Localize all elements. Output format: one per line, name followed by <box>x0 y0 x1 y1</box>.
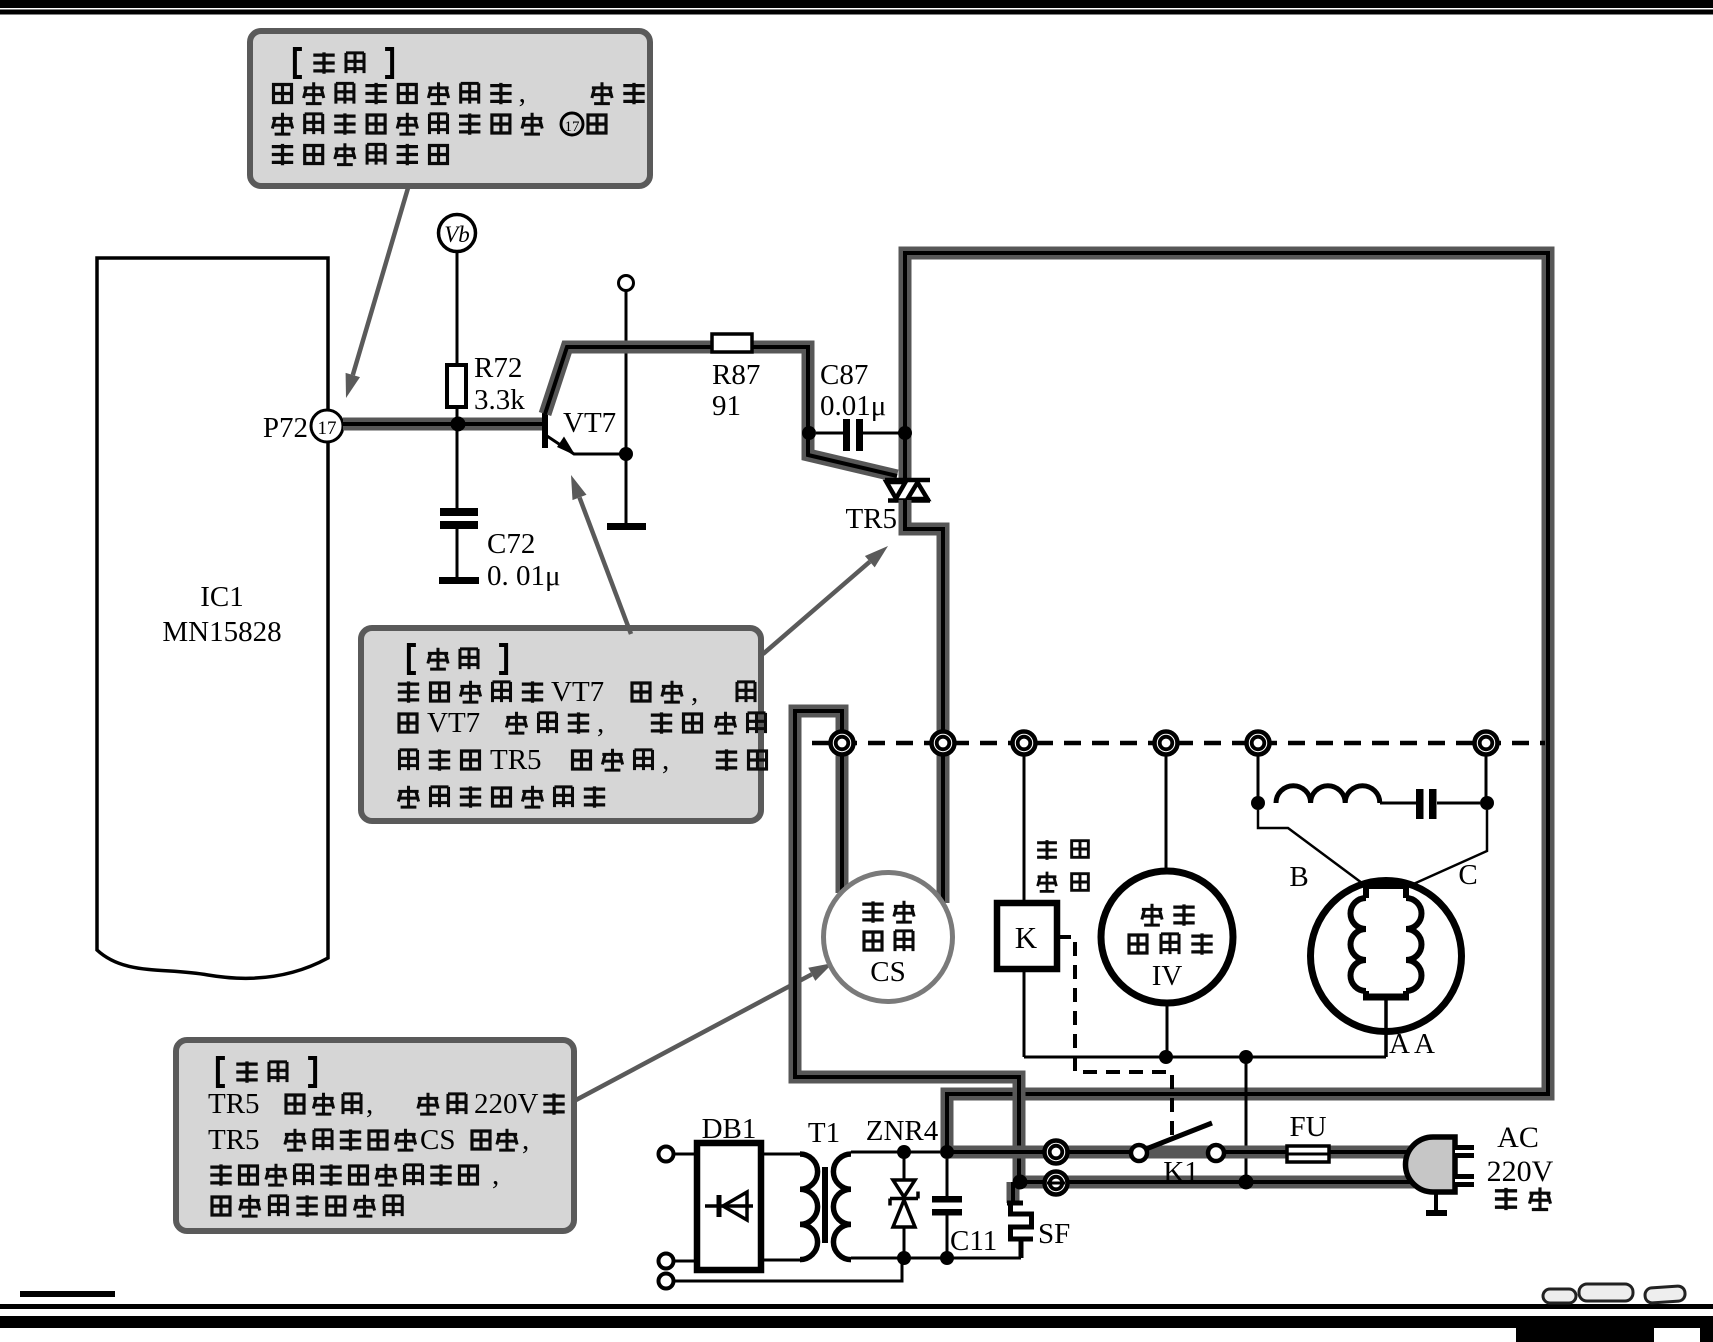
left footer tick <box>20 1291 115 1297</box>
wire B to motor <box>1258 810 1366 886</box>
node B <box>1251 796 1265 810</box>
secondary bottom line <box>851 1257 1021 1260</box>
svg-text:AC: AC <box>1497 1121 1539 1154</box>
ZNR4 bottom lead <box>903 1227 906 1258</box>
terminals left <box>659 1147 674 1289</box>
switch coil K <box>997 903 1057 969</box>
svg-text:A A: A A <box>1389 1028 1435 1060</box>
callout box 3 <box>176 1040 574 1231</box>
svg-text:CS: CS <box>420 1124 455 1156</box>
svg-text:VT7: VT7 <box>563 407 616 439</box>
C11 bottom lead <box>946 1215 949 1258</box>
svg-text:91: 91 <box>712 390 741 422</box>
wire C to motor <box>1409 810 1487 886</box>
varistor ZNR4 <box>890 1180 918 1227</box>
triac TR5 <box>885 480 930 501</box>
svg-text:FU: FU <box>1289 1111 1326 1143</box>
capacitor C72 <box>440 508 478 516</box>
svg-text:,: , <box>597 707 604 739</box>
svg-text:C87: C87 <box>820 359 868 391</box>
svg-text:,: , <box>492 1159 499 1191</box>
wire junction to C72 <box>456 431 459 508</box>
bottom connector <box>1045 1141 1068 1164</box>
svg-text:R72: R72 <box>474 352 522 384</box>
wire bottom terminal to node <box>674 1258 902 1281</box>
top rule line <box>0 10 1713 15</box>
svg-text:DB1: DB1 <box>702 1113 757 1145</box>
wire C87 to box edge <box>863 432 900 435</box>
svg-text:K1: K1 <box>1163 1156 1198 1188</box>
dashed bulkhead line <box>812 741 1545 746</box>
svg-text:VT7: VT7 <box>427 707 480 739</box>
wire connector to B node <box>1257 754 1260 803</box>
svg-text:TR5: TR5 <box>845 503 897 535</box>
junction CS/AC <box>1013 1175 1028 1190</box>
svg-text:0.01μ: 0.01μ <box>820 390 886 422</box>
svg-text:TR5: TR5 <box>208 1088 260 1120</box>
wire pin17 to VT7 base (thick) <box>343 418 543 431</box>
svg-text:P72: P72 <box>263 412 308 444</box>
neutral joining line <box>1024 1056 1386 1059</box>
wire TR5 to CS (thick) <box>905 500 943 903</box>
ZNR4 top lead <box>903 1152 906 1180</box>
svg-text:B: B <box>1289 861 1308 893</box>
Vb supply terminal <box>439 215 476 252</box>
svg-text:C: C <box>1458 859 1477 891</box>
motor winding <box>1351 886 1422 997</box>
svg-text:T1: T1 <box>808 1117 840 1149</box>
connector 3 <box>1013 732 1036 755</box>
callout box 1 <box>250 31 650 186</box>
wire connector to K <box>1023 754 1026 903</box>
motor <box>1311 881 1462 1032</box>
connector 5 <box>1247 732 1270 755</box>
motor lead down <box>1384 996 1388 1057</box>
level switch SF <box>1007 1203 1034 1258</box>
IC1 MN15828 microprocessor <box>97 258 328 978</box>
svg-text:17: 17 <box>318 418 337 439</box>
inlet valve IV <box>1101 871 1233 1003</box>
capacitor C87 <box>843 419 850 451</box>
top black bar <box>0 0 1713 8</box>
switch K1 <box>1131 1123 1224 1161</box>
junction emitter <box>619 447 633 461</box>
svg-text:17: 17 <box>565 119 581 135</box>
fuse FU <box>1287 1146 1329 1162</box>
svg-text:ZNR4: ZNR4 <box>866 1115 939 1147</box>
washing machine enclosure outline (wire) <box>905 253 1548 1150</box>
wire IV down <box>1166 1003 1169 1057</box>
junction IV <box>1159 1050 1173 1064</box>
motor start inductor <box>1276 786 1380 803</box>
callout3 text <box>208 1058 565 1217</box>
callout2 arrow to VT7 <box>571 475 631 634</box>
svg-text:SF: SF <box>1038 1218 1070 1250</box>
junction C87 right on box edge <box>898 426 912 440</box>
junction to AC <box>1239 1050 1253 1064</box>
bottom rule line <box>0 1304 1713 1309</box>
wire down to AC line <box>1245 1057 1248 1181</box>
wire terminal to ground <box>625 291 628 524</box>
callout2 text <box>398 645 767 808</box>
capacitor C11 <box>932 1196 962 1203</box>
label 开关线圈 <box>1037 840 1088 892</box>
T1 secondary <box>833 1154 851 1260</box>
callout1 arrow <box>346 188 408 398</box>
connector 2 <box>932 732 955 755</box>
wire connector to C node <box>1485 754 1488 803</box>
junction C11 top <box>940 1145 954 1159</box>
junction neutral <box>1239 1175 1254 1190</box>
wire T1 to C11 junction <box>851 1151 940 1154</box>
callout1 text <box>272 49 645 166</box>
decorative pills <box>1543 1284 1686 1303</box>
AC neutral line (thick) <box>1013 1176 1415 1189</box>
connector 1 <box>831 732 854 755</box>
svg-text:C11: C11 <box>950 1225 997 1257</box>
wire connector to IV <box>1165 754 1168 872</box>
C11 top lead <box>946 1159 949 1196</box>
label 输入 <box>1495 1187 1551 1210</box>
junction ZNR4 bottom <box>897 1251 911 1265</box>
callout3 arrow to CS <box>576 963 833 1100</box>
node C <box>1480 796 1494 810</box>
AC plug <box>1406 1137 1475 1216</box>
bridge rectifier DB1 <box>697 1143 761 1270</box>
T1 core <box>822 1167 828 1243</box>
resistor R87 <box>712 334 752 352</box>
junction C11 bottom <box>940 1251 954 1265</box>
svg-text:C72: C72 <box>487 528 535 560</box>
bottom connector <box>1045 1172 1068 1195</box>
svg-text:TR5: TR5 <box>490 744 542 776</box>
AC live line (thick) <box>947 1146 1415 1159</box>
transistor VT7 <box>542 403 626 456</box>
svg-text:MN15828: MN15828 <box>162 616 281 648</box>
C72 end bar <box>439 577 479 584</box>
svg-text:,: , <box>662 744 669 776</box>
svg-text:R87: R87 <box>712 359 760 391</box>
pin 17 circle <box>311 410 343 442</box>
svg-text:220V: 220V <box>1487 1155 1554 1188</box>
SF jog (thick) <box>1007 1182 1020 1203</box>
svg-text:IV: IV <box>1152 960 1183 992</box>
junction ZNR4 top <box>897 1145 911 1159</box>
svg-text:IC1: IC1 <box>200 581 244 613</box>
junction C87 left <box>802 426 816 440</box>
svg-text:,: , <box>522 1124 529 1156</box>
wire CS left loop (thick) <box>795 711 1019 1182</box>
svg-text:,: , <box>366 1088 373 1120</box>
svg-text:,: , <box>519 77 526 109</box>
connector 4 <box>1155 732 1178 755</box>
transformer T1 primary <box>800 1154 818 1260</box>
resistor R72 <box>447 365 466 407</box>
terminal circle <box>619 276 634 291</box>
motor run capacitor <box>1416 789 1424 819</box>
wire Vb to R72 <box>456 252 459 366</box>
bottom right tab <box>1516 1328 1654 1342</box>
svg-text:TR5: TR5 <box>208 1124 260 1156</box>
svg-text:220V: 220V <box>474 1088 539 1120</box>
drain assembly CS <box>824 873 953 1002</box>
junction R72/base <box>451 417 466 432</box>
svg-text:VT7: VT7 <box>551 676 604 708</box>
wire to C87 <box>816 432 843 435</box>
svg-text:Vb: Vb <box>444 222 470 247</box>
svg-text:K: K <box>1015 920 1038 955</box>
svg-text:3.3k: 3.3k <box>474 384 525 416</box>
wire K to neutral line <box>1023 969 1026 1057</box>
wire VT7 collector to TR5 gate (thick) <box>545 347 897 476</box>
svg-text:,: , <box>691 676 698 708</box>
ground bar <box>607 523 646 530</box>
bottom black bar <box>0 1316 1713 1328</box>
svg-text:0. 01μ: 0. 01μ <box>487 560 561 592</box>
svg-text:CS: CS <box>870 956 905 988</box>
callout box 2 <box>361 628 761 821</box>
callout2 arrow to TR5 <box>763 546 888 654</box>
connector 6 <box>1475 732 1498 755</box>
dashed link K-K1 <box>1057 937 1172 1135</box>
